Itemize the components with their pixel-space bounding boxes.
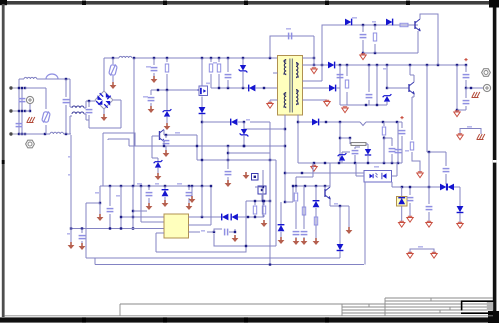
wire <box>337 65 344 105</box>
wire <box>58 78 70 80</box>
wire gate drive <box>129 145 285 147</box>
wire IC pin long <box>70 227 164 229</box>
wire IC pin feedback <box>189 216 223 218</box>
capacitor C14 <box>407 186 414 216</box>
power port <box>454 111 460 117</box>
wire pin8 <box>303 25 323 81</box>
wire <box>366 121 402 123</box>
capacitor C12 <box>293 232 300 238</box>
title block divider <box>430 298 432 301</box>
wire pin10 <box>303 99 328 101</box>
wire HV bus <box>133 57 278 59</box>
diode D15 <box>337 206 344 258</box>
wire <box>427 151 446 153</box>
wire L line <box>19 78 24 80</box>
sheet inner frame line <box>5 315 493 317</box>
diode D7 <box>345 17 357 25</box>
zener D9 <box>383 65 392 105</box>
power port <box>261 220 268 227</box>
resistor R5 <box>400 23 408 26</box>
wire Vout1 <box>426 65 428 152</box>
power port <box>278 237 285 244</box>
resistor R1 <box>165 58 168 90</box>
wire <box>456 64 467 66</box>
wire <box>262 170 264 217</box>
power port <box>399 221 405 227</box>
sheet border left bar <box>2 4 5 317</box>
capacitor C6 <box>366 65 373 105</box>
wire emitter <box>412 94 414 140</box>
testpoint TP1 <box>252 174 259 181</box>
title block row line <box>385 300 462 302</box>
protective earth <box>477 134 485 140</box>
zener D23 <box>240 122 285 147</box>
wire out2 rail <box>298 121 312 123</box>
startup vertical <box>68 140 71 229</box>
wire <box>275 160 277 246</box>
secondary diode D6 <box>329 65 340 91</box>
wire collector <box>164 130 197 146</box>
wire <box>196 146 198 160</box>
connector pin <box>483 84 490 91</box>
wire bridge minus <box>103 109 105 114</box>
capacitor C17 <box>146 186 153 203</box>
mounting hole MH1 <box>482 69 491 77</box>
transformer T1 <box>278 56 303 116</box>
diode D17 <box>278 202 285 237</box>
zener D24 <box>152 158 162 173</box>
transistor Q3 <box>409 82 415 95</box>
wire opto pins <box>356 163 364 176</box>
resistor R9 gray <box>350 138 368 145</box>
capacitor CX2 <box>16 124 23 127</box>
capacitor C2 <box>146 58 157 76</box>
wire <box>324 186 326 189</box>
secondary diode D5 <box>328 62 466 69</box>
wire <box>86 202 100 204</box>
diode D19 <box>162 186 169 200</box>
wire pin6 <box>303 36 316 66</box>
power port <box>342 107 348 113</box>
wire collector <box>410 65 414 82</box>
title block black cell <box>461 301 493 314</box>
thermistor RT1 <box>109 58 118 82</box>
zener D25 <box>163 90 172 123</box>
wire long gnd left <box>85 203 87 258</box>
capacitor C4 <box>286 28 292 39</box>
wire mid rail <box>197 159 276 161</box>
wire <box>133 58 135 186</box>
wire <box>376 65 378 105</box>
wire <box>18 79 20 135</box>
capacitor C21 <box>426 152 433 221</box>
wire IC pin <box>141 186 164 222</box>
bridge rectifier D1 <box>95 91 113 109</box>
power port <box>232 235 239 242</box>
diode D13 <box>312 119 360 126</box>
wire IC pin comp <box>189 229 237 236</box>
wire <box>363 52 418 54</box>
capacitor C3 <box>225 58 232 88</box>
wire <box>191 186 193 196</box>
resistor R10 <box>382 122 385 139</box>
diode D12 <box>457 206 464 222</box>
power port <box>97 203 104 221</box>
power port <box>243 172 250 179</box>
title block row line <box>342 309 493 311</box>
power port <box>301 238 308 245</box>
protective earth <box>472 92 480 98</box>
wire sense row <box>293 185 330 187</box>
wire <box>227 146 229 166</box>
diode D10 <box>440 184 447 191</box>
wire collector <box>420 14 438 65</box>
power port GND primary <box>101 114 108 121</box>
capacitor C20 <box>163 135 170 147</box>
capacitor C16 <box>107 186 114 229</box>
power port <box>311 165 317 171</box>
capacitor C13 <box>301 232 308 238</box>
wire pin2 <box>284 115 286 204</box>
connector J1 pin 2 <box>9 109 19 112</box>
title block divider <box>368 304 370 307</box>
wire <box>392 186 440 188</box>
wire long bottom 1 <box>86 257 340 259</box>
TL431 U2 <box>365 144 371 163</box>
snubber wire <box>270 36 314 58</box>
sheet border right bar <box>493 8 497 317</box>
wire <box>21 87 26 135</box>
wire <box>201 186 203 217</box>
wire <box>70 135 72 140</box>
connector J1 pin 1 <box>9 86 19 89</box>
TVS D18 <box>397 187 408 221</box>
title block divider <box>341 304 343 316</box>
wire <box>340 137 351 139</box>
power port <box>346 206 353 234</box>
wire bottom bus <box>100 185 211 187</box>
wire long bottom 2 <box>95 258 364 266</box>
wire <box>466 87 483 89</box>
resistor R6 <box>373 25 376 53</box>
wire IC loop A <box>156 201 246 252</box>
resistor R8 <box>405 142 414 152</box>
startup loop wires <box>103 133 135 186</box>
transistor Q2 <box>415 19 421 32</box>
wire opto out <box>392 163 398 176</box>
wire <box>460 126 481 134</box>
testpoint TP2 <box>258 186 266 201</box>
power port <box>151 76 158 83</box>
wire pin9 <box>303 87 330 89</box>
wire <box>412 152 420 172</box>
capacitor C10 <box>352 147 360 163</box>
wire <box>392 186 404 188</box>
title block long top line <box>120 303 493 305</box>
wire IC pin vref <box>189 185 213 225</box>
wire <box>383 138 385 163</box>
isolated gnd link <box>410 246 434 253</box>
wire <box>456 65 466 111</box>
zener D14 <box>338 152 350 163</box>
wire <box>69 79 71 107</box>
wire <box>384 138 392 146</box>
diode D21 <box>231 214 264 221</box>
inductor L2 <box>50 132 64 134</box>
wire pin7 <box>303 64 329 66</box>
wire emitter <box>417 31 419 53</box>
power port <box>267 102 273 108</box>
wire <box>285 185 294 202</box>
smudges on bus <box>137 183 182 185</box>
wire <box>132 186 134 230</box>
wire pin4 <box>270 100 278 102</box>
wire <box>89 100 121 128</box>
wire <box>395 122 402 163</box>
wire <box>295 177 297 186</box>
capacitor C15 <box>79 229 86 244</box>
wire N line <box>19 133 50 135</box>
power port <box>164 123 171 130</box>
diode D20 <box>222 214 229 221</box>
power port <box>431 252 437 258</box>
inductor L1 <box>24 77 37 79</box>
capacitor CX3 <box>63 79 70 134</box>
wire <box>255 186 263 188</box>
power port <box>313 238 320 245</box>
wire y122 left <box>202 121 231 123</box>
wire <box>86 100 95 108</box>
mounting hole MH2 <box>26 140 35 148</box>
capacitor C19 <box>225 166 232 180</box>
title block row line <box>342 312 461 314</box>
power port <box>79 243 86 250</box>
power port <box>293 238 300 245</box>
title block row line <box>385 297 493 299</box>
resistor R14 <box>262 201 265 217</box>
wire <box>228 152 270 154</box>
wire IC pin <box>156 233 164 252</box>
power port <box>225 180 232 187</box>
optocoupler U3 <box>364 166 392 182</box>
polar capacitor C8 <box>463 58 470 89</box>
connector J1 pin 3 <box>9 132 19 135</box>
title block divider <box>449 307 451 310</box>
sheet border bottom bar <box>0 311 499 323</box>
wire <box>95 186 101 204</box>
power port <box>417 172 423 178</box>
wire base <box>152 136 160 158</box>
title block row line <box>342 306 493 308</box>
title block divider <box>439 310 441 313</box>
fuse dip <box>360 122 366 126</box>
wire transistor Q4 cluster top <box>296 163 313 177</box>
varistor RV1 <box>25 88 50 134</box>
wire gnd5 rail <box>298 162 402 164</box>
wire <box>86 114 89 120</box>
power port <box>162 200 169 207</box>
diode D22 <box>231 119 270 126</box>
wire drain <box>201 58 203 86</box>
PWM IC U4 <box>164 214 189 238</box>
power port <box>110 82 117 89</box>
power port <box>457 134 463 140</box>
power port <box>457 222 463 228</box>
wire <box>37 78 46 80</box>
wire <box>64 133 71 135</box>
power port <box>155 173 162 180</box>
resistor R11 <box>294 186 297 229</box>
resistor R4 <box>213 58 221 88</box>
capacitor C5 <box>360 25 367 54</box>
wire <box>339 122 341 163</box>
resistor R7 <box>345 65 348 105</box>
wire source <box>201 97 203 108</box>
wire bridge plus <box>104 57 119 91</box>
wire emitter <box>163 142 198 148</box>
transformer pin stub <box>273 72 278 74</box>
power port <box>407 216 413 222</box>
resistor R15 <box>116 186 121 229</box>
wire opto in+ <box>285 172 364 174</box>
power port <box>311 68 317 74</box>
resistor R16 <box>67 229 71 243</box>
power port <box>189 196 196 203</box>
wire base <box>387 87 409 89</box>
capacitor CX1 <box>19 99 26 102</box>
wire <box>269 122 271 264</box>
wire <box>330 199 349 207</box>
wire <box>313 36 315 58</box>
resistor R13 <box>253 201 256 218</box>
wire gate node <box>151 89 197 91</box>
wire clamp node <box>211 87 249 89</box>
wire opto down <box>364 182 366 265</box>
polar capacitor C9 <box>399 116 406 163</box>
power port <box>186 203 193 210</box>
wire <box>201 121 203 186</box>
power port <box>68 242 75 249</box>
power port <box>324 100 330 106</box>
wire opto emitter <box>391 182 393 187</box>
wire <box>459 187 461 206</box>
wire stub <box>133 210 147 212</box>
sheet border top bar <box>0 0 499 8</box>
title block left cell divider <box>119 304 121 316</box>
wire <box>246 200 271 202</box>
diode D16 <box>313 186 320 238</box>
power port <box>407 252 413 258</box>
capacitor C18 <box>186 186 193 203</box>
earth terminal <box>25 96 34 112</box>
wire <box>0 0 1 1</box>
resistor R2 <box>143 90 154 106</box>
wire IC pin vdd <box>120 216 164 218</box>
wire IC loop B <box>214 234 276 247</box>
inductor L4 <box>119 56 132 58</box>
common-mode choke L3 <box>70 106 86 134</box>
transistor Q5 <box>160 130 166 143</box>
diode D8 <box>372 19 393 26</box>
power port <box>146 203 153 210</box>
transistor Q4 <box>325 187 331 200</box>
power port <box>148 106 155 113</box>
wire pin1 <box>297 115 299 164</box>
capacitor C7 <box>443 152 450 184</box>
wire aux rail <box>322 24 418 65</box>
zener D3 <box>239 58 248 88</box>
wire gnd12 <box>340 104 387 106</box>
title block divider <box>384 298 386 316</box>
capacitor C22 <box>463 88 470 110</box>
fuse F1 <box>46 74 58 79</box>
capacitor C11 <box>389 149 396 163</box>
capacitor C1 <box>86 101 93 128</box>
resistor R12 <box>302 186 305 229</box>
power port <box>163 146 170 157</box>
power port <box>360 54 366 60</box>
power port <box>426 221 432 227</box>
protective earth symbol <box>27 117 35 123</box>
mosfet Q1 <box>197 83 210 96</box>
diode D4 <box>249 85 278 92</box>
resistor R3 <box>209 58 212 88</box>
wire <box>329 163 331 187</box>
diode D2 sense <box>199 107 206 122</box>
diode D11 <box>447 184 460 191</box>
